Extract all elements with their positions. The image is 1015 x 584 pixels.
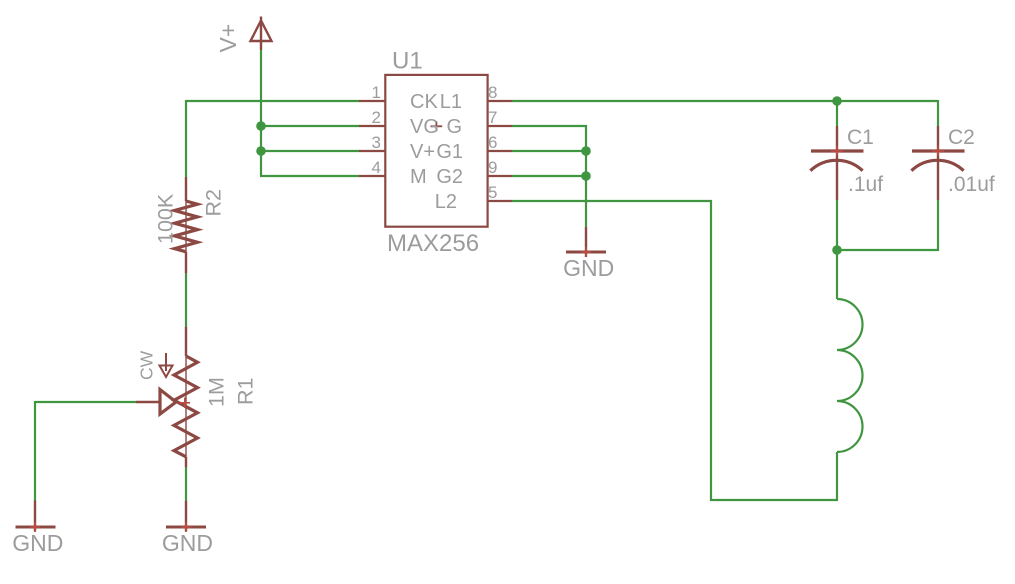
svg-text:VG: VG xyxy=(410,116,439,138)
wire R1 to GND xyxy=(185,467,187,501)
GND left origin cross xyxy=(30,522,40,532)
C1 origin cross xyxy=(831,146,843,156)
wire to pin 4 xyxy=(260,175,359,177)
svg-text:2: 2 xyxy=(372,108,381,127)
pin 3 stub xyxy=(359,150,385,152)
wire to pin 3 xyxy=(261,150,359,152)
svg-text:6: 6 xyxy=(488,133,497,152)
wire net V+ down to R2 xyxy=(185,100,187,177)
wire left down to GND xyxy=(34,401,36,501)
svg-text:CK: CK xyxy=(410,91,438,113)
pin 1 stub xyxy=(359,100,385,102)
svg-text:3: 3 xyxy=(372,133,381,152)
svg-text:GND: GND xyxy=(12,530,63,556)
wire C1 bottom xyxy=(836,200,838,250)
svg-text:.1uf: .1uf xyxy=(848,173,883,196)
svg-text:5: 5 xyxy=(488,183,497,202)
wire pin 9 xyxy=(512,175,586,177)
svg-text:C2: C2 xyxy=(948,126,975,149)
pin 6 stub xyxy=(488,150,513,152)
junction pin6 xyxy=(581,146,591,156)
svg-text:L2: L2 xyxy=(435,191,457,213)
R1 wiper arrow xyxy=(136,390,176,415)
svg-text:R2: R2 xyxy=(202,189,226,216)
svg-text:G1: G1 xyxy=(436,141,463,163)
wire to pin 2 xyxy=(261,125,359,127)
wire net V+ top horizontal to pin 1 xyxy=(186,100,359,102)
wire R2 to R1 xyxy=(185,273,187,327)
wire C1 top stub xyxy=(836,101,838,126)
pin 7 stub xyxy=(488,125,513,127)
wire C2 bottom xyxy=(937,200,939,251)
junction pin3 net xyxy=(256,146,266,156)
resistor R2 xyxy=(175,177,198,273)
svg-text:CW: CW xyxy=(136,350,156,380)
wire pin 5 L2 to coil bottom xyxy=(512,201,837,500)
supply symbol V+ xyxy=(251,17,272,51)
svg-text:1: 1 xyxy=(372,83,381,102)
svg-text:100K: 100K xyxy=(154,193,178,244)
wire pin 6 xyxy=(512,150,586,152)
svg-text:C1: C1 xyxy=(847,126,874,149)
svg-text:M: M xyxy=(410,166,427,188)
C2 origin cross xyxy=(932,146,944,156)
pin 8 stub xyxy=(488,100,513,102)
inductor coil L (wire arcs) xyxy=(837,299,863,452)
junction pin9 xyxy=(581,171,591,181)
wire bottom link C1-C2 xyxy=(837,249,938,251)
svg-text:7: 7 xyxy=(488,108,497,127)
CW direction arrow xyxy=(160,353,173,377)
wire pin 7 to GND xyxy=(512,126,586,227)
wire V+ symbol drop xyxy=(260,50,262,176)
wire pin 8 net to right xyxy=(512,100,938,102)
GND U1 origin cross xyxy=(581,247,591,257)
capacitor C1 xyxy=(810,126,863,200)
pin 9 stub xyxy=(488,175,513,177)
svg-text:L1: L1 xyxy=(440,91,462,113)
pin 5 stub xyxy=(488,200,513,202)
svg-text:4: 4 xyxy=(372,158,381,177)
svg-text:V+: V+ xyxy=(410,141,435,163)
junction C1 top xyxy=(832,96,842,106)
pin 4 stub xyxy=(359,175,385,177)
svg-text:GND: GND xyxy=(563,255,614,281)
IC U1 box xyxy=(385,75,487,227)
svg-text:8: 8 xyxy=(488,83,497,102)
GND R1 origin cross xyxy=(181,522,191,532)
ground symbol GND under R1 xyxy=(166,501,206,532)
svg-text:.01uf: .01uf xyxy=(948,173,995,196)
svg-text:GND: GND xyxy=(162,530,213,556)
svg-text:U1: U1 xyxy=(392,48,423,75)
ground symbol GND left xyxy=(16,501,56,532)
svg-text:V+: V+ xyxy=(215,24,241,53)
capacitor C2 xyxy=(911,126,964,200)
svg-text:G: G xyxy=(446,116,462,138)
svg-text:1M: 1M xyxy=(205,377,229,407)
wire wiper to left xyxy=(35,401,136,403)
svg-text:9: 9 xyxy=(488,158,497,177)
R1 origin cross xyxy=(180,398,191,409)
junction C1 bottom node xyxy=(832,245,842,255)
junction pin2 net xyxy=(256,121,266,131)
pin 2 stub xyxy=(359,125,385,127)
potentiometer R1 xyxy=(174,327,198,467)
wire C2 top stub xyxy=(937,100,939,126)
svg-text:R1: R1 xyxy=(234,378,258,405)
ground symbol GND under U1 xyxy=(566,227,606,257)
U1 origin cross xyxy=(431,121,443,131)
svg-text:G2: G2 xyxy=(436,166,463,188)
wire down to coil top xyxy=(836,250,838,299)
svg-text:MAX256: MAX256 xyxy=(387,230,479,257)
